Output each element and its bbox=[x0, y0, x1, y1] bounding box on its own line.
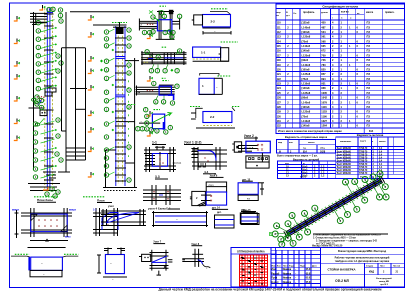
svg-text:вниз: вниз bbox=[65, 236, 71, 239]
svg-text:Изм: Изм bbox=[271, 269, 276, 271]
svg-text:ПЗ: ПЗ bbox=[367, 114, 371, 118]
svg-text:Лист: Лист bbox=[380, 265, 385, 267]
detail S4 bbox=[190, 106, 201, 108]
svg-text:Итого масса элементов конструк: Итого масса элементов конструкций отправ… bbox=[278, 130, 342, 133]
svg-text:1264: 1264 bbox=[321, 124, 327, 128]
svg-text:ПЗ: ПЗ bbox=[367, 119, 371, 123]
detail D1 cross joint bbox=[139, 20, 158, 22]
balloons K1 left bbox=[36, 21, 40, 25]
svg-text:L140x6: L140x6 bbox=[302, 25, 311, 29]
svg-text:примеч.: примеч. bbox=[385, 11, 395, 14]
svg-text:L125x8: L125x8 bbox=[302, 53, 311, 57]
svg-text:124: 124 bbox=[277, 87, 282, 90]
svg-text:ПЗ: ПЗ bbox=[367, 30, 371, 34]
svg-text:[90x6: [90x6 bbox=[302, 96, 309, 100]
detail S2 bbox=[221, 41, 238, 43]
balloons D2 bbox=[145, 50, 149, 54]
svg-text:N док: N док bbox=[289, 265, 295, 267]
svg-text:125: 125 bbox=[277, 92, 282, 95]
svg-text:Н.конт: Н.конт bbox=[271, 282, 279, 284]
title block frame bbox=[231, 248, 404, 287]
svg-text:820: 820 bbox=[321, 67, 326, 71]
svg-text:узел: узел bbox=[108, 205, 114, 208]
svg-text:7798-70: 7798-70 bbox=[359, 148, 368, 150]
svg-text:Болт М20х60: Болт М20х60 bbox=[337, 154, 352, 156]
svg-text:Ведомость отправочных марок: Ведомость отправочных марок bbox=[285, 135, 328, 139]
svg-text:мар: мар bbox=[277, 12, 282, 14]
svg-text:1227: 1227 bbox=[321, 119, 327, 123]
detail D5 beam joint bbox=[136, 86, 175, 88]
svg-text:114: 114 bbox=[277, 40, 282, 43]
detail BP2 base plan bbox=[83, 196, 105, 198]
balloons D6 bbox=[144, 108, 148, 112]
svg-text:Листов: Листов bbox=[393, 265, 401, 267]
svg-text:[140x8: [140x8 bbox=[302, 86, 311, 90]
svg-text:масса: масса bbox=[308, 142, 315, 144]
svg-text:746: 746 bbox=[321, 58, 326, 62]
svg-text:[75x6: [75x6 bbox=[302, 77, 309, 81]
svg-text:709: 709 bbox=[321, 53, 326, 57]
svg-text:L125x8: L125x8 bbox=[302, 91, 311, 95]
svg-text:ПЗ: ПЗ bbox=[367, 72, 371, 76]
detail D6 gusset plate bbox=[139, 122, 160, 124]
svg-text:ПЗ: ПЗ bbox=[367, 96, 371, 100]
svg-text:968: 968 bbox=[321, 86, 326, 90]
detail E1 connection bbox=[255, 137, 257, 142]
svg-text:598: 598 bbox=[321, 39, 326, 43]
svg-text:ПЗ: ПЗ bbox=[367, 44, 371, 48]
svg-text:132: 132 bbox=[277, 125, 282, 128]
svg-text:Всего отправочных марок — 2 шт: Всего отправочных марок — 2 шт. bbox=[277, 155, 318, 158]
svg-text:113: 113 bbox=[277, 36, 282, 39]
svg-text:ПЗ: ПЗ bbox=[367, 63, 371, 67]
svg-text:ОТПРАВОЧНАЯ МАРКА: ОТПРАВОЧНАЯ МАРКА bbox=[237, 251, 265, 254]
detail S3 bbox=[200, 74, 219, 76]
svg-text:931: 931 bbox=[321, 82, 326, 86]
svg-text:814: 814 bbox=[369, 130, 374, 133]
svg-text:~: ~ bbox=[41, 262, 43, 266]
detail S1 bbox=[211, 8, 228, 10]
svg-text:Болт М20х60: Болт М20х60 bbox=[337, 164, 352, 166]
svg-text:1079: 1079 bbox=[321, 100, 327, 104]
svg-text:131: 131 bbox=[277, 120, 282, 123]
balloons K1 bottom bbox=[50, 187, 54, 191]
svg-text:ПЗ: ПЗ bbox=[367, 53, 371, 57]
svg-text:Болт М20х60: Болт М20х60 bbox=[337, 167, 352, 169]
svg-text:Болт М20х60: Болт М20х60 bbox=[337, 148, 352, 150]
column K2 top bracket bbox=[113, 24, 127, 26]
svg-text:[75x6: [75x6 bbox=[302, 114, 309, 118]
svg-text:121: 121 bbox=[277, 73, 282, 76]
svg-text:Узел 2: Узел 2 bbox=[244, 134, 254, 138]
svg-text:L110x8: L110x8 bbox=[302, 82, 311, 86]
svg-text:цех N 2: цех N 2 bbox=[380, 284, 389, 286]
column K1 base bbox=[28, 183, 60, 185]
svg-text:L125x8: L125x8 bbox=[302, 110, 311, 114]
svg-text:[100x8: [100x8 bbox=[302, 30, 311, 34]
svg-text:кол: кол bbox=[289, 142, 293, 144]
svg-text:130: 130 bbox=[277, 115, 282, 118]
svg-text:7798-70: 7798-70 bbox=[359, 173, 368, 175]
svg-text:1190: 1190 bbox=[321, 114, 327, 118]
svg-text:План базы: План базы bbox=[37, 198, 53, 202]
svg-text:111: 111 bbox=[277, 26, 282, 29]
title block revision table bbox=[271, 248, 321, 287]
svg-text:117: 117 bbox=[277, 54, 282, 57]
svg-text:завод МК: завод МК bbox=[379, 281, 390, 283]
svg-text:Ф: Ф bbox=[279, 150, 281, 153]
svg-text:[90x6: [90x6 bbox=[302, 58, 309, 62]
table T1 specification grid bbox=[276, 4, 405, 134]
svg-text:ед.: ед. bbox=[303, 148, 307, 150]
svg-text:ПЗ: ПЗ bbox=[367, 49, 371, 53]
svg-text:524: 524 bbox=[321, 30, 326, 34]
table T2 shipping marks bbox=[276, 135, 335, 158]
svg-text:ПЗ: ПЗ bbox=[367, 86, 371, 90]
elevation marks right bbox=[149, 34, 151, 38]
svg-text:L110x8: L110x8 bbox=[302, 119, 311, 123]
svg-text:СФ-2 МЛ: СФ-2 МЛ bbox=[335, 279, 349, 283]
svg-text:Иванов: Иванов bbox=[283, 282, 292, 284]
svg-text:4-4: 4-4 bbox=[204, 170, 209, 174]
svg-text:635: 635 bbox=[321, 44, 326, 48]
svg-text:672: 672 bbox=[321, 49, 326, 53]
svg-text:783: 783 bbox=[321, 63, 326, 67]
balloons K2 left bbox=[104, 30, 108, 34]
svg-text:~: ~ bbox=[110, 262, 112, 266]
svg-text:7798-70: 7798-70 bbox=[359, 167, 368, 169]
svg-text:1116: 1116 bbox=[321, 105, 327, 109]
svg-text:122: 122 bbox=[277, 78, 282, 81]
column K1 shaft bbox=[33, 12, 35, 170]
svg-text:112: 112 bbox=[277, 31, 282, 34]
detail E2 plate bbox=[192, 191, 206, 205]
svg-text:СТОЙКИ ФАХВЕРКА: СТОЙКИ ФАХВЕРКА bbox=[328, 267, 356, 271]
svg-text:~: ~ bbox=[176, 217, 178, 221]
svg-text:ПЗ: ПЗ bbox=[367, 91, 371, 95]
svg-text:L140x6: L140x6 bbox=[302, 63, 311, 67]
svg-text:ПЗ: ПЗ bbox=[367, 39, 371, 43]
column K2 shaft bbox=[115, 26, 117, 186]
svg-text:Белгородский: Белгородский bbox=[376, 277, 392, 280]
svg-text:118: 118 bbox=[277, 59, 282, 62]
svg-text:Спецификация металла: Спецификация металла bbox=[322, 5, 358, 9]
svg-text:7798-70: 7798-70 bbox=[359, 151, 368, 153]
svg-text:ГОСТ: ГОСТ bbox=[360, 141, 366, 143]
svg-text:L125x8: L125x8 bbox=[302, 72, 311, 76]
svg-text:115: 115 bbox=[277, 45, 282, 48]
svg-text:2. Отверстия под болты М20 — 2: 2. Отверстия под болты М20 — 23 мм bbox=[313, 236, 356, 239]
svg-text:450: 450 bbox=[321, 21, 326, 25]
svg-text:1005: 1005 bbox=[321, 91, 327, 95]
svg-text:ПЗ: ПЗ bbox=[367, 58, 371, 62]
column K1 mid-left gusset bbox=[29, 107, 43, 109]
svg-text:ПЗ: ПЗ bbox=[367, 67, 371, 71]
assembly diagonal brace bbox=[286, 178, 380, 232]
svg-text:05.01: 05.01 bbox=[306, 278, 312, 280]
title block location header bbox=[231, 253, 275, 255]
svg-text:Болт М20х60: Болт М20х60 bbox=[337, 173, 352, 175]
balloons D1 bbox=[151, 15, 155, 19]
detail R2 plate bbox=[241, 214, 259, 225]
svg-text:масса: масса bbox=[379, 141, 386, 143]
svg-text:1. Монтажные соединения на бол: 1. Монтажные соединения на болтах нормал… bbox=[313, 233, 381, 236]
svg-text:Данный чертеж КМД разработан н: Данный чертеж КМД разработан на основани… bbox=[159, 287, 383, 291]
detail P1 pit section bbox=[28, 247, 66, 249]
svg-text:3. Заводские соединения — свар: 3. Заводские соединения — сварные, элект… bbox=[316, 240, 378, 243]
svg-text:вверх: вверх bbox=[12, 209, 20, 212]
svg-text:128: 128 bbox=[277, 106, 282, 109]
svg-text:ПЗ: ПЗ bbox=[367, 77, 371, 81]
svg-text:насечка: насечка bbox=[173, 163, 182, 165]
svg-text:длина: длина bbox=[321, 12, 328, 14]
svg-text:894: 894 bbox=[321, 77, 326, 81]
svg-text:ПЗ: ПЗ bbox=[367, 110, 371, 114]
detail BP1 base plan bbox=[34, 196, 59, 198]
table T3 details list bbox=[278, 157, 336, 178]
svg-text:наименов.: наименов. bbox=[340, 141, 352, 143]
svg-text:Иванов: Иванов bbox=[283, 269, 292, 271]
svg-text:857: 857 bbox=[321, 72, 326, 76]
location plan red hatch bbox=[239, 255, 267, 286]
assembly notes bbox=[313, 233, 388, 235]
detail S5 plate bbox=[105, 255, 124, 274]
svg-text:129: 129 bbox=[277, 111, 282, 114]
svg-text:Болт М20х60: Болт М20х60 bbox=[337, 161, 352, 163]
svg-text:116: 116 bbox=[277, 50, 282, 53]
svg-text:Реконструкция завода ЖБК г.Бел: Реконструкция завода ЖБК г.Белгород bbox=[338, 250, 387, 253]
svg-text:[100x8: [100x8 bbox=[302, 67, 311, 71]
svg-text:Иванов: Иванов bbox=[283, 273, 292, 275]
svg-text:вверх: вверх bbox=[69, 209, 77, 212]
svg-text:7798-70: 7798-70 bbox=[359, 164, 368, 166]
svg-text:CO.1: CO.1 bbox=[209, 185, 215, 187]
svg-text:1042: 1042 bbox=[321, 96, 327, 100]
svg-text:[140x8: [140x8 bbox=[302, 49, 311, 53]
svg-text:ПЗ: ПЗ bbox=[367, 105, 371, 109]
svg-text:Пров: Пров bbox=[271, 278, 277, 280]
svg-text:1153: 1153 bbox=[321, 110, 327, 114]
svg-text:мар: мар bbox=[278, 142, 283, 144]
svg-text:1628: 1628 bbox=[320, 151, 326, 153]
svg-text:3-3: 3-3 bbox=[155, 175, 160, 179]
detail R1 plate bbox=[215, 215, 235, 228]
detail D10 section bbox=[145, 147, 147, 172]
svg-text:[100x8: [100x8 bbox=[302, 105, 311, 109]
balloons K1 right bbox=[56, 54, 60, 58]
svg-text:L125x8: L125x8 bbox=[302, 35, 311, 39]
svg-text:профиль: профиль bbox=[303, 11, 315, 14]
svg-text:2-2: 2-2 bbox=[211, 19, 216, 23]
balloons K1 top bbox=[47, 7, 51, 11]
detail Q1 arc square bbox=[102, 209, 104, 226]
svg-text:общ.: общ. bbox=[320, 147, 326, 150]
elevation marks left bbox=[16, 16, 18, 20]
svg-text:7798-70: 7798-70 bbox=[359, 161, 368, 163]
svg-text:тамбура в осях 1-2. Деталирово: тамбура в осях 1-2. Деталировочные черте… bbox=[335, 260, 390, 263]
svg-text:Стадия: Стадия bbox=[366, 265, 374, 267]
svg-text:120: 120 bbox=[277, 68, 282, 71]
svg-text:561: 561 bbox=[321, 35, 326, 39]
detail B1 beam elevation bbox=[153, 211, 155, 227]
balloons D5 bbox=[152, 81, 156, 85]
svg-text:7798-70: 7798-70 bbox=[359, 154, 368, 156]
svg-text:Болт М20х60: Болт М20х60 bbox=[337, 170, 352, 172]
svg-text:ПЗ: ПЗ bbox=[367, 82, 371, 86]
svg-text:ПЗ: ПЗ bbox=[367, 25, 371, 29]
svg-text:КМД: КМД bbox=[369, 271, 374, 273]
svg-text:Фасад стойки ФС-1 М1:20: Фасад стойки ФС-1 М1:20 bbox=[312, 244, 343, 247]
svg-text:05.01: 05.01 bbox=[306, 282, 312, 284]
detail D2 beam elevation bbox=[141, 52, 186, 54]
svg-text:Болт М20х60: Болт М20х60 bbox=[337, 158, 352, 160]
svg-text:дет.: дет. bbox=[217, 211, 222, 214]
svg-text:узел 4: узел 4 bbox=[148, 207, 157, 211]
svg-text:Лист: Лист bbox=[283, 265, 288, 267]
svg-text:кол-во: кол-во bbox=[341, 11, 349, 14]
svg-text:дет.: дет. bbox=[244, 210, 249, 213]
svg-text:7798-70: 7798-70 bbox=[359, 170, 368, 172]
svg-text:[125x8: [125x8 bbox=[302, 21, 311, 25]
svg-text:2-2: 2-2 bbox=[210, 115, 215, 119]
svg-text:ПЗ: ПЗ bbox=[367, 21, 371, 25]
svg-text:05.01: 05.01 bbox=[306, 269, 312, 271]
svg-text:1-1: 1-1 bbox=[152, 141, 157, 145]
svg-text:Подп: Подп bbox=[300, 265, 306, 267]
svg-text:ПЗ: ПЗ bbox=[367, 124, 371, 128]
svg-text:[140x8: [140x8 bbox=[302, 124, 311, 128]
svg-text:487: 487 bbox=[321, 25, 326, 29]
svg-text:Ведомость деталей: Ведомость деталей bbox=[293, 157, 320, 161]
column K1 side elevation lines bbox=[61, 48, 63, 131]
svg-text:Болт М20х60: Болт М20х60 bbox=[337, 151, 352, 153]
svg-text:119: 119 bbox=[277, 64, 282, 67]
title block name section bbox=[321, 250, 405, 287]
svg-text:масса: масса bbox=[366, 11, 374, 14]
detail D12 base plan bbox=[143, 189, 181, 191]
svg-text:126: 126 bbox=[277, 97, 282, 100]
svg-text:ПЗ: ПЗ bbox=[367, 100, 371, 104]
svg-text:Балка Б-1: Балка Б-1 bbox=[158, 207, 171, 211]
svg-text:L110x8: L110x8 bbox=[302, 44, 311, 48]
green marks K2 bbox=[128, 60, 130, 160]
svg-text:Узел 1 (2-2): Узел 1 (2-2) bbox=[184, 141, 201, 145]
svg-text:План: План bbox=[97, 199, 105, 203]
svg-text:7798-70: 7798-70 bbox=[359, 158, 368, 160]
leader diamonds K1 bbox=[55, 27, 57, 29]
svg-text:1-1: 1-1 bbox=[201, 51, 206, 55]
table T4 bolts list bbox=[336, 133, 405, 178]
elevation marks middle bbox=[90, 15, 92, 19]
svg-text:Итого: Итого bbox=[300, 176, 307, 178]
svg-text:[75x6: [75x6 bbox=[302, 39, 309, 43]
svg-text:110: 110 bbox=[277, 22, 282, 25]
svg-text:127: 127 bbox=[277, 101, 282, 104]
svg-text:05.01: 05.01 bbox=[306, 273, 312, 275]
svg-text:Изм: Изм bbox=[272, 265, 276, 267]
svg-text:Иванов: Иванов bbox=[283, 278, 292, 280]
svg-text:Ведомость метизов: Ведомость метизов bbox=[357, 133, 384, 137]
assembly balloons bbox=[346, 182, 354, 196]
svg-text:ПЗ: ПЗ bbox=[367, 35, 371, 39]
balloons K2 right bbox=[127, 28, 131, 32]
column K1 top bracket bbox=[30, 12, 47, 14]
svg-text:123: 123 bbox=[277, 83, 282, 86]
svg-text:L140x6: L140x6 bbox=[302, 100, 311, 104]
detail D11 arc section bbox=[191, 148, 197, 150]
svg-text:Разраб: Разраб bbox=[271, 272, 280, 275]
